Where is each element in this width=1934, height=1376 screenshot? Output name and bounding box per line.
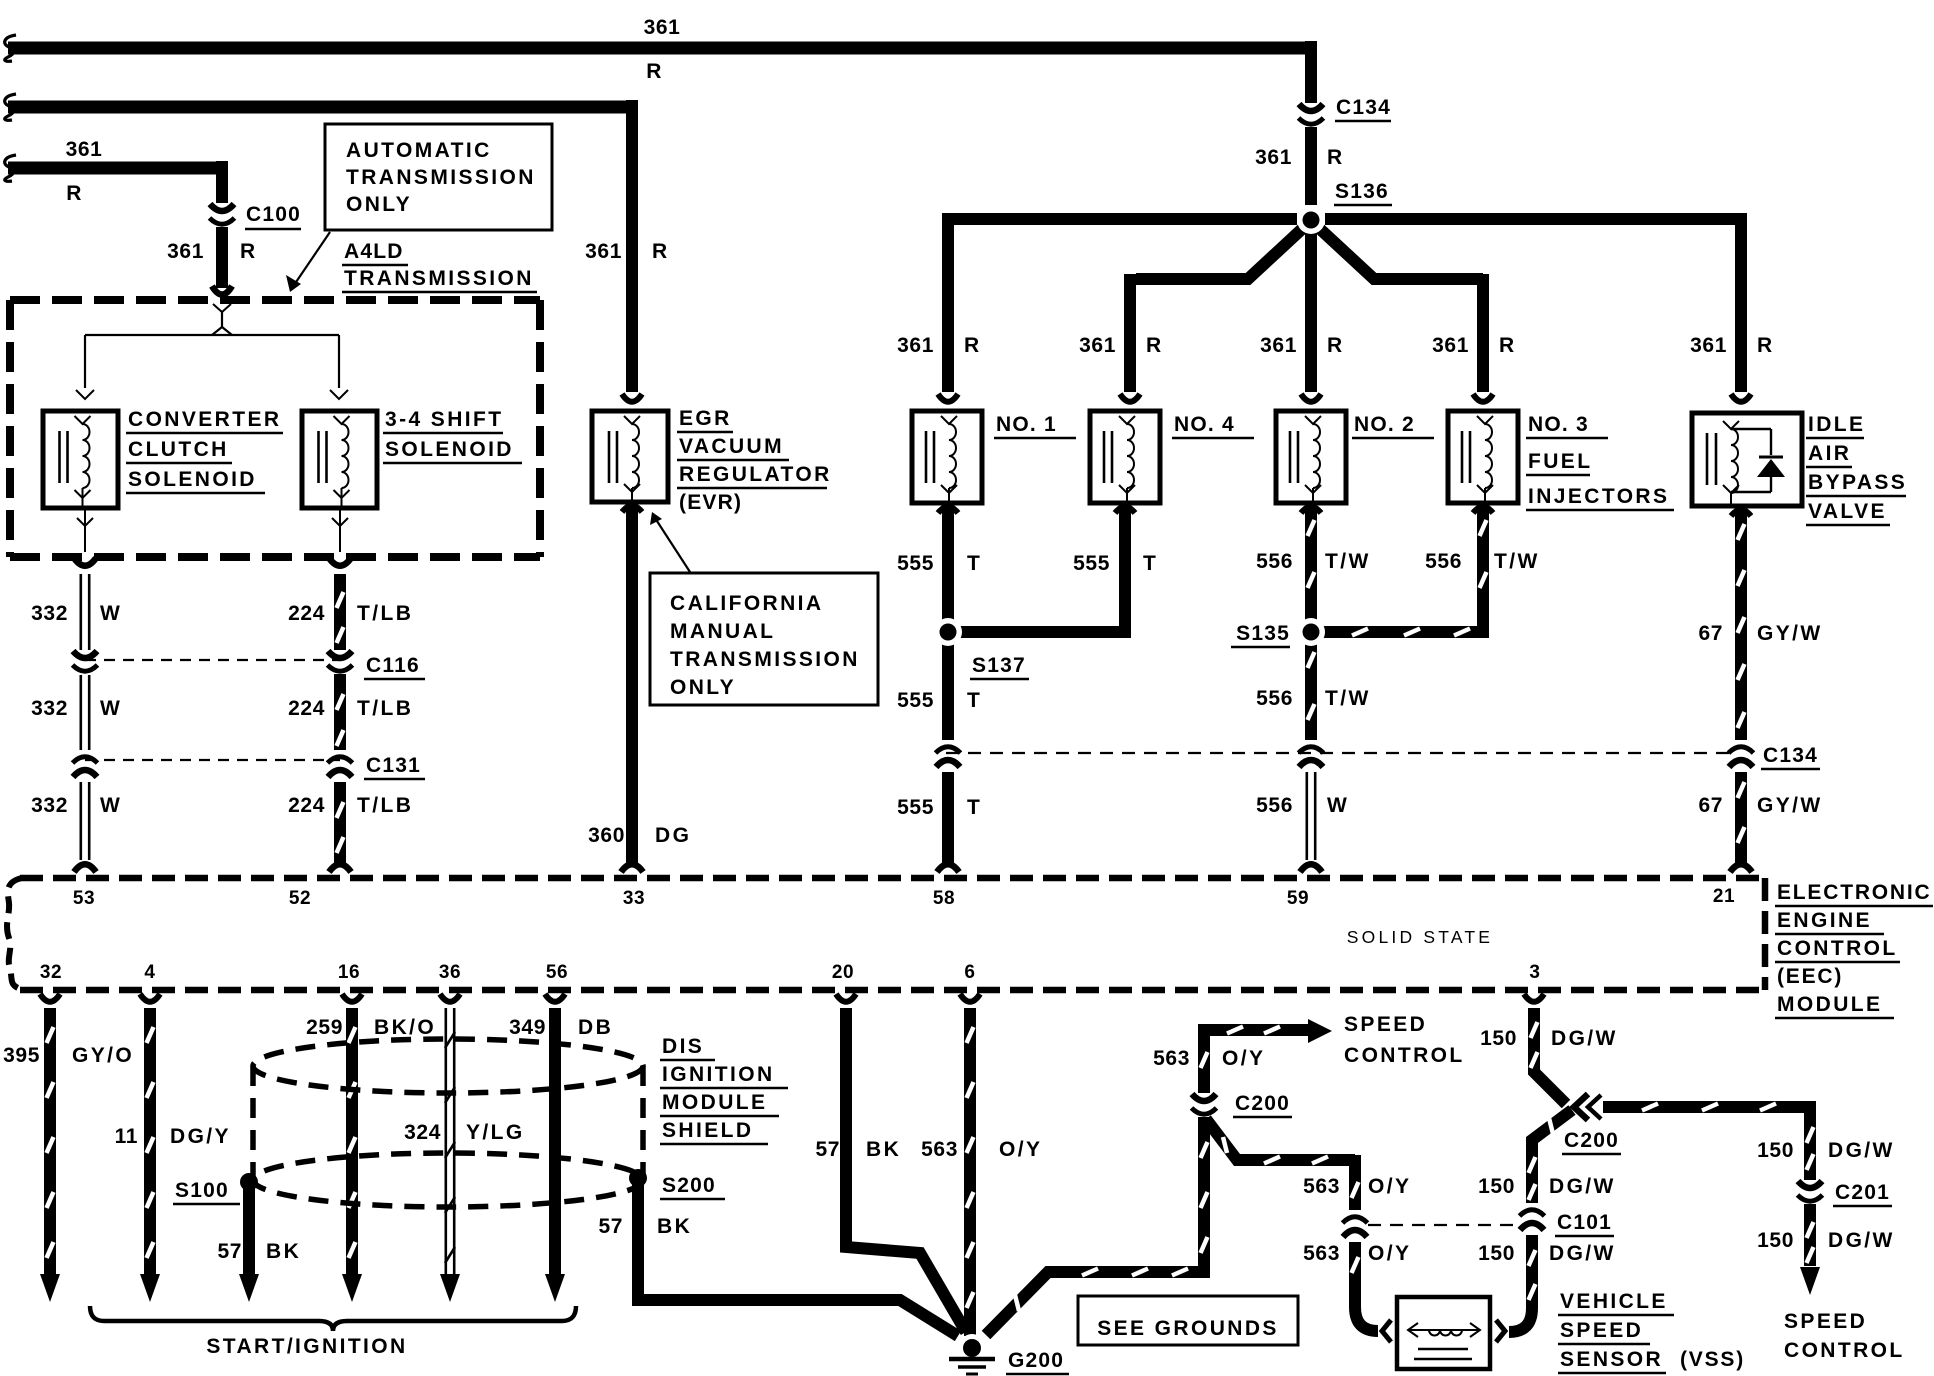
svg-text:563: 563 — [1303, 1242, 1340, 1265]
svg-text:MANUAL: MANUAL — [670, 620, 775, 643]
svg-text:556: 556 — [1256, 687, 1293, 710]
svg-text:361: 361 — [644, 16, 681, 39]
svg-text:150: 150 — [1480, 1027, 1517, 1050]
svg-text:BK: BK — [657, 1215, 692, 1238]
svg-text:C134: C134 — [1763, 744, 1818, 767]
svg-text:556: 556 — [1256, 794, 1293, 817]
svg-text:IGNITION: IGNITION — [662, 1063, 775, 1086]
svg-text:150: 150 — [1478, 1175, 1515, 1198]
svg-text:DG/Y: DG/Y — [170, 1125, 231, 1148]
svg-text:21: 21 — [1713, 886, 1735, 907]
svg-text:W: W — [100, 697, 122, 720]
svg-text:555: 555 — [897, 796, 934, 819]
svg-text:16: 16 — [338, 962, 360, 983]
svg-text:ONLY: ONLY — [670, 676, 736, 699]
svg-text:C200: C200 — [1564, 1129, 1619, 1152]
svg-text:G200: G200 — [1008, 1349, 1064, 1372]
svg-text:C116: C116 — [366, 654, 420, 677]
svg-text:11: 11 — [115, 1125, 138, 1148]
svg-text:GY/W: GY/W — [1757, 622, 1823, 645]
svg-text:T: T — [967, 796, 982, 819]
svg-text:DG/W: DG/W — [1549, 1242, 1616, 1265]
svg-text:T/W: T/W — [1325, 687, 1371, 710]
svg-text:556: 556 — [1256, 550, 1293, 573]
svg-text:ONLY: ONLY — [346, 193, 412, 216]
svg-text:T: T — [967, 552, 982, 575]
svg-text:TRANSMISSION: TRANSMISSION — [670, 648, 860, 671]
svg-text:361: 361 — [1079, 334, 1116, 357]
svg-text:4: 4 — [144, 962, 155, 983]
svg-text:CALIFORNIA: CALIFORNIA — [670, 592, 824, 615]
svg-text:A4LD: A4LD — [344, 240, 404, 263]
svg-text:CONTROL: CONTROL — [1344, 1044, 1465, 1067]
svg-text:324: 324 — [404, 1121, 441, 1144]
svg-text:R: R — [964, 334, 982, 357]
svg-text:C134: C134 — [1336, 96, 1391, 119]
svg-text:W: W — [1327, 794, 1349, 817]
svg-text:58: 58 — [933, 888, 955, 909]
svg-text:O/Y: O/Y — [1222, 1047, 1265, 1070]
svg-text:EGR: EGR — [679, 407, 732, 430]
svg-text:T/W: T/W — [1325, 550, 1371, 573]
svg-text:67: 67 — [1698, 622, 1723, 645]
svg-text:SENSOR: SENSOR — [1560, 1348, 1663, 1371]
svg-text:O/Y: O/Y — [1368, 1175, 1411, 1198]
svg-text:FUEL: FUEL — [1528, 450, 1592, 473]
svg-text:NO. 1: NO. 1 — [996, 413, 1057, 436]
svg-text:START/IGNITION: START/IGNITION — [206, 1335, 407, 1358]
svg-text:R: R — [1327, 146, 1345, 169]
svg-text:DB: DB — [578, 1016, 613, 1039]
svg-text:360: 360 — [588, 824, 625, 847]
svg-text:S135: S135 — [1236, 622, 1290, 645]
svg-text:T: T — [1143, 552, 1158, 575]
svg-text:52: 52 — [289, 888, 311, 909]
svg-text:(EVR): (EVR) — [679, 491, 742, 514]
svg-text:AIR: AIR — [1808, 442, 1851, 465]
svg-text:36: 36 — [439, 962, 461, 983]
svg-text:DG/W: DG/W — [1549, 1175, 1616, 1198]
svg-text:C200: C200 — [1235, 1092, 1290, 1115]
svg-text:O/Y: O/Y — [1368, 1242, 1411, 1265]
svg-text:S136: S136 — [1335, 180, 1389, 203]
svg-text:555: 555 — [1073, 552, 1110, 575]
svg-text:59: 59 — [1287, 888, 1309, 909]
svg-text:224: 224 — [288, 697, 325, 720]
svg-text:DG: DG — [655, 824, 691, 847]
svg-text:BK/O: BK/O — [374, 1016, 436, 1039]
svg-text:20: 20 — [832, 962, 854, 983]
svg-text:DG/W: DG/W — [1828, 1139, 1895, 1162]
svg-text:3-4 SHIFT: 3-4 SHIFT — [385, 408, 503, 431]
svg-text:563: 563 — [1303, 1175, 1340, 1198]
svg-text:NO. 3: NO. 3 — [1528, 413, 1589, 436]
svg-text:INJECTORS: INJECTORS — [1528, 485, 1669, 508]
svg-text:C201: C201 — [1835, 1181, 1890, 1204]
svg-text:TRANSMISSION: TRANSMISSION — [344, 267, 534, 290]
svg-text:O/Y: O/Y — [999, 1138, 1042, 1161]
svg-text:SEE GROUNDS: SEE GROUNDS — [1097, 1317, 1279, 1340]
svg-text:67: 67 — [1698, 794, 1723, 817]
svg-text:MODULE: MODULE — [1777, 993, 1882, 1016]
svg-text:T: T — [967, 689, 982, 712]
svg-text:DG/W: DG/W — [1551, 1027, 1618, 1050]
svg-text:(VSS): (VSS) — [1680, 1348, 1745, 1371]
svg-text:NO. 4: NO. 4 — [1174, 413, 1235, 436]
svg-text:GY/O: GY/O — [72, 1044, 134, 1067]
svg-text:259: 259 — [306, 1016, 343, 1039]
svg-text:361: 361 — [1690, 334, 1727, 357]
svg-text:MODULE: MODULE — [662, 1091, 767, 1114]
svg-text:224: 224 — [288, 794, 325, 817]
svg-text:ENGINE: ENGINE — [1777, 909, 1872, 932]
svg-text:SPEED: SPEED — [1560, 1319, 1643, 1342]
svg-text:CONTROL: CONTROL — [1784, 1339, 1905, 1362]
svg-text:57: 57 — [217, 1240, 242, 1263]
svg-text:361: 361 — [66, 138, 103, 161]
svg-text:SHIELD: SHIELD — [662, 1119, 753, 1142]
svg-text:ELECTRONIC: ELECTRONIC — [1777, 881, 1932, 904]
svg-text:T/W: T/W — [1494, 550, 1540, 573]
svg-text:Y/LG: Y/LG — [466, 1121, 525, 1144]
svg-text:R: R — [1327, 334, 1345, 357]
svg-text:57: 57 — [598, 1215, 623, 1238]
svg-text:32: 32 — [40, 962, 62, 983]
svg-text:33: 33 — [623, 888, 645, 909]
svg-text:150: 150 — [1757, 1229, 1794, 1252]
svg-text:C131: C131 — [366, 754, 421, 777]
svg-text:C101: C101 — [1557, 1211, 1612, 1234]
svg-text:SPEED: SPEED — [1344, 1013, 1427, 1036]
svg-text:R: R — [1757, 334, 1775, 357]
svg-text:361: 361 — [1255, 146, 1292, 169]
svg-text:349: 349 — [509, 1016, 546, 1039]
svg-text:361: 361 — [1432, 334, 1469, 357]
svg-text:BYPASS: BYPASS — [1808, 471, 1907, 494]
svg-text:53: 53 — [73, 888, 95, 909]
svg-text:S200: S200 — [662, 1174, 716, 1197]
svg-text:W: W — [100, 794, 122, 817]
svg-text:W: W — [100, 602, 122, 625]
svg-text:R: R — [66, 182, 84, 205]
svg-text:S100: S100 — [175, 1179, 229, 1202]
svg-text:CONTROL: CONTROL — [1777, 937, 1898, 960]
svg-text:150: 150 — [1757, 1139, 1794, 1162]
svg-text:3: 3 — [1529, 962, 1540, 983]
svg-text:57: 57 — [815, 1138, 840, 1161]
svg-text:BK: BK — [266, 1240, 301, 1263]
svg-text:REGULATOR: REGULATOR — [679, 463, 832, 486]
svg-text:AUTOMATIC: AUTOMATIC — [346, 139, 492, 162]
svg-text:T/LB: T/LB — [357, 697, 413, 720]
svg-text:S137: S137 — [972, 654, 1026, 677]
svg-text:GY/W: GY/W — [1757, 794, 1823, 817]
svg-text:361: 361 — [897, 334, 934, 357]
svg-text:56: 56 — [546, 962, 568, 983]
svg-text:R: R — [240, 240, 258, 263]
svg-text:332: 332 — [31, 794, 68, 817]
svg-text:395: 395 — [3, 1044, 40, 1067]
svg-text:(EEC): (EEC) — [1777, 965, 1843, 988]
svg-text:224: 224 — [288, 602, 325, 625]
svg-text:555: 555 — [897, 689, 934, 712]
svg-text:CLUTCH: CLUTCH — [128, 438, 229, 461]
svg-text:555: 555 — [897, 552, 934, 575]
svg-text:361: 361 — [1260, 334, 1297, 357]
svg-text:DIS: DIS — [662, 1035, 704, 1058]
svg-text:VACUUM: VACUUM — [679, 435, 784, 458]
svg-text:563: 563 — [1153, 1047, 1190, 1070]
svg-text:R: R — [1499, 334, 1517, 357]
svg-text:VEHICLE: VEHICLE — [1560, 1290, 1668, 1313]
svg-text:332: 332 — [31, 697, 68, 720]
svg-text:NO. 2: NO. 2 — [1354, 413, 1415, 436]
svg-text:T/LB: T/LB — [357, 602, 413, 625]
svg-text:6: 6 — [964, 962, 975, 983]
svg-text:332: 332 — [31, 602, 68, 625]
svg-text:361: 361 — [167, 240, 204, 263]
svg-text:C100: C100 — [246, 203, 301, 226]
svg-text:CONVERTER: CONVERTER — [128, 408, 281, 431]
svg-text:R: R — [1146, 334, 1164, 357]
svg-text:SOLID STATE: SOLID STATE — [1347, 927, 1493, 947]
svg-text:556: 556 — [1425, 550, 1462, 573]
svg-text:VALVE: VALVE — [1808, 500, 1887, 523]
svg-text:563: 563 — [921, 1138, 958, 1161]
svg-text:SOLENOID: SOLENOID — [385, 438, 514, 461]
svg-text:150: 150 — [1478, 1242, 1515, 1265]
svg-text:TRANSMISSION: TRANSMISSION — [346, 166, 536, 189]
svg-text:361: 361 — [585, 240, 622, 263]
svg-text:IDLE: IDLE — [1808, 413, 1865, 436]
svg-text:R: R — [652, 240, 670, 263]
svg-text:BK: BK — [866, 1138, 901, 1161]
svg-text:R: R — [646, 60, 664, 83]
svg-text:T/LB: T/LB — [357, 794, 413, 817]
svg-text:SPEED: SPEED — [1784, 1310, 1867, 1333]
svg-text:SOLENOID: SOLENOID — [128, 468, 257, 491]
svg-text:DG/W: DG/W — [1828, 1229, 1895, 1252]
